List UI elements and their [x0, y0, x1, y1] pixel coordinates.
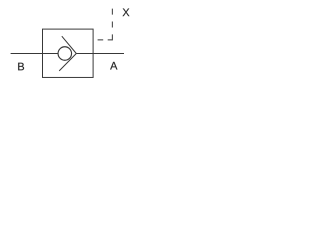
check valve ball (circle) [58, 47, 72, 61]
pilot port label X [123, 9, 130, 17]
wire: port A line (right) [76, 53, 124, 55]
pilot line X (dashed wire) [93, 39, 112, 41]
pilot line X (dashed wire, vertical) [111, 9, 113, 41]
valve body box [43, 29, 94, 77]
valve seat lower arm [59, 54, 76, 71]
port label A [110, 62, 117, 70]
wire: port B line (left) [11, 53, 58, 55]
valve seat upper arm [62, 36, 77, 53]
port label B [18, 63, 24, 71]
